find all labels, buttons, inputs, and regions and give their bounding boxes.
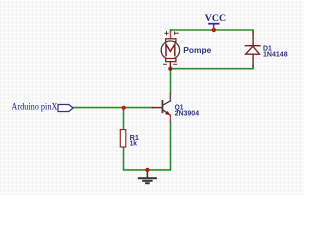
ground symbol — [138, 171, 157, 184]
pin mark - bottom — [164, 63, 177, 65]
junction motor bottom / diode / collector — [168, 67, 172, 71]
resistor R1 body — [120, 130, 126, 147]
wire R1 bottom to ground rail — [124, 147, 148, 170]
wire motor top lead stub — [170, 30, 172, 32]
wire collector up to motor bottom junction — [170, 69, 172, 94]
svg-text:Arduino pinX: Arduino pinX — [11, 102, 57, 112]
net flag Arduino pinX — [58, 105, 73, 112]
wire bottom rail motor to diode anode — [171, 66, 254, 69]
wire R1 top lead — [123, 108, 125, 130]
junction base / R1 — [122, 106, 126, 110]
wire emitter to ground rail — [147, 122, 171, 170]
diode D1 — [245, 32, 260, 67]
junction ground — [145, 168, 149, 172]
wire base net from flag to transistor base — [73, 107, 153, 109]
junction VCC — [212, 28, 216, 32]
wire VCC top rail — [171, 30, 254, 32]
supply VCC symbol — [209, 24, 219, 30]
svg-text:1N4148: 1N4148 — [263, 52, 288, 59]
pin mark + top — [165, 32, 178, 35]
transistor Q1 — [153, 94, 171, 123]
svg-text:Pompe: Pompe — [183, 46, 212, 55]
motor M1 Pompe — [161, 31, 179, 69]
svg-text:VCC: VCC — [205, 14, 226, 24]
svg-text:2N3904: 2N3904 — [175, 110, 200, 117]
svg-text:1k: 1k — [130, 141, 138, 148]
